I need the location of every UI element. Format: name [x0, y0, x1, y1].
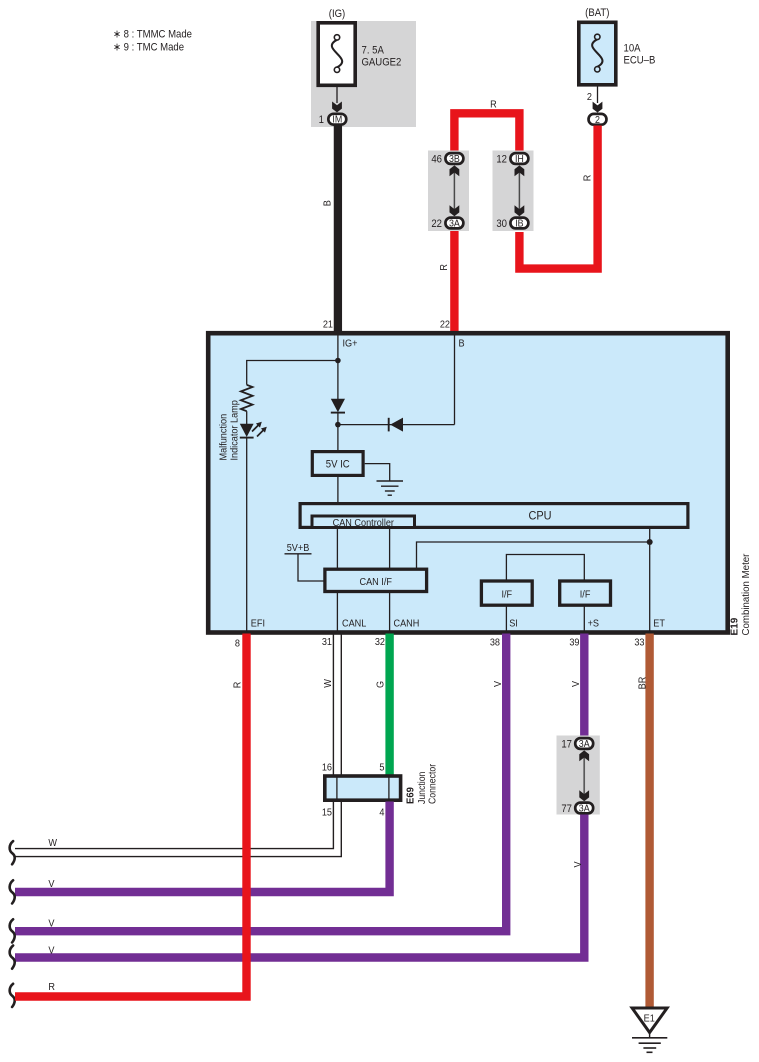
svg-text:EFI: EFI	[251, 618, 265, 630]
svg-text:ECU–B: ECU–B	[624, 55, 656, 67]
CPU box	[300, 504, 688, 528]
svg-text:V: V	[572, 861, 584, 867]
note text TMMC/TMC	[113, 29, 192, 54]
fuse ECU-B 10A	[579, 22, 656, 85]
svg-text:38: 38	[490, 637, 501, 649]
svg-text:G: G	[375, 681, 387, 688]
diode D1 (series)	[331, 399, 345, 413]
svg-text:V: V	[48, 918, 54, 930]
wire R: 3A down to pin 22	[450, 230, 458, 334]
svg-text:I/F: I/F	[501, 589, 512, 601]
svg-text:39: 39	[569, 637, 579, 649]
ground E1	[632, 1008, 667, 1052]
svg-text:CANH: CANH	[394, 618, 420, 630]
wire R from EFI pin to left break	[15, 634, 247, 997]
wire I/F to +S pin	[583, 607, 585, 633]
svg-text:V: V	[48, 945, 54, 957]
svg-text:5V IC: 5V IC	[326, 459, 350, 471]
wire B (black) IM to pin 21	[334, 126, 342, 334]
diode D2 (to B line, pointing left)	[389, 418, 403, 432]
svg-text:SI: SI	[509, 618, 518, 630]
wire V from SI pin to left break	[15, 634, 506, 932]
wire G (CANH) to junction connector	[385, 634, 393, 776]
wire CAN controller to CAN I/F (CANL)	[336, 529, 338, 569]
double arrow between 3B and 3A	[453, 171, 455, 211]
svg-text:E1: E1	[644, 1013, 655, 1025]
svg-text:IH: IH	[515, 153, 524, 165]
wire R: IH up, left, down to 3B	[454, 113, 519, 152]
svg-text:R: R	[232, 682, 244, 689]
svg-text:∗ 9 : TMC Made: ∗ 9 : TMC Made	[113, 42, 184, 54]
svg-text:ET: ET	[653, 618, 665, 630]
svg-text:(BAT): (BAT)	[585, 7, 609, 19]
gray panel behind fuse GAUGE2	[311, 21, 416, 127]
5V IC box	[312, 452, 363, 476]
svg-text:33: 33	[634, 637, 645, 649]
svg-text:3B: 3B	[449, 153, 460, 165]
svg-text:2: 2	[587, 91, 592, 103]
svg-text:15: 15	[322, 807, 333, 819]
connector oval IB pin 30	[510, 218, 528, 229]
svg-text:32: 32	[375, 636, 385, 648]
svg-text:GAUGE2: GAUGE2	[362, 57, 402, 69]
node IG+ junction	[335, 358, 341, 364]
node ET junction	[647, 539, 653, 545]
CAN Controller box	[312, 516, 415, 528]
connector oval IH pin 12	[510, 153, 528, 164]
wire 5V+B bracket	[285, 553, 312, 555]
connector oval 2	[589, 114, 607, 126]
svg-text:22: 22	[431, 218, 442, 230]
svg-text:17: 17	[561, 739, 572, 751]
svg-text:3A: 3A	[449, 218, 460, 230]
svg-text:B: B	[322, 200, 334, 206]
combination meter box E19	[208, 333, 728, 632]
svg-text:Combination Meter: Combination Meter	[741, 553, 752, 636]
svg-text:BR: BR	[637, 677, 649, 690]
wire CAN I/F to CANH pin	[389, 593, 391, 633]
fuse GAUGE2 7.5A	[318, 23, 401, 86]
svg-text:IM: IM	[332, 114, 342, 126]
svg-text:Malfunction: Malfunction	[218, 414, 230, 461]
svg-text:3A: 3A	[579, 803, 590, 815]
ground (internal)	[377, 481, 404, 495]
wire CAN I/F to ET net	[417, 542, 650, 568]
I/F box (SI)	[481, 581, 532, 605]
CAN I/F box	[325, 569, 427, 591]
svg-text:77: 77	[561, 803, 572, 815]
connector pin 1 IM	[319, 114, 347, 126]
svg-text:46: 46	[431, 154, 442, 166]
wire CPU to ET pin	[649, 529, 651, 633]
pin numbers below box	[235, 636, 645, 649]
wire W (double line) CANL to left break	[15, 634, 341, 857]
svg-text:W: W	[322, 679, 334, 688]
resistor (lamp)	[241, 385, 253, 411]
junction connector E69	[325, 776, 401, 800]
wire V from 3A to left break	[15, 815, 584, 958]
wire 5V IC to ground	[365, 464, 390, 481]
connector oval 3A pin 22	[445, 218, 463, 229]
connector oval 3A pin 77	[575, 803, 593, 814]
svg-text:4: 4	[379, 807, 385, 819]
svg-text:+S: +S	[588, 618, 600, 630]
svg-text:R: R	[438, 264, 450, 271]
svg-text:2: 2	[595, 114, 600, 126]
wire fuse to oval 2	[597, 87, 599, 104]
svg-text:5: 5	[379, 762, 385, 774]
INTERIOR	[241, 335, 650, 632]
LED malfunction indicator lamp	[240, 422, 267, 438]
I/F box (+S)	[560, 581, 611, 605]
svg-text:CANL: CANL	[342, 618, 367, 630]
svg-text:V: V	[492, 681, 504, 687]
svg-text:10A: 10A	[624, 43, 641, 55]
svg-text:1: 1	[319, 114, 325, 126]
svg-text:Connector: Connector	[427, 764, 438, 804]
connector pair 3A/3A gray panel	[557, 736, 600, 815]
svg-text:E19: E19	[729, 617, 740, 635]
svg-text:V: V	[48, 878, 54, 890]
break symbol V row2	[10, 880, 15, 903]
svg-text:7. 5A: 7. 5A	[362, 45, 384, 57]
break symbol V row4	[10, 946, 15, 969]
wire IG+ net vertical	[337, 335, 339, 400]
connector oval 3A pin 17	[575, 738, 593, 749]
break symbol V row3	[10, 919, 15, 942]
connector pair IH/IB gray panel	[493, 151, 534, 232]
svg-text:CAN Controller: CAN Controller	[333, 517, 395, 529]
svg-text:E69: E69	[405, 787, 416, 804]
wire junction to B-line diode	[338, 424, 455, 426]
wire B net from pin 22	[454, 335, 456, 425]
svg-text:IB: IB	[515, 218, 523, 230]
svg-text:I/F: I/F	[580, 589, 591, 601]
svg-text:R: R	[490, 99, 497, 111]
wire R: oval2 down, left, up to IB	[519, 126, 597, 269]
wire diode to 5V IC	[337, 412, 339, 451]
wire I/F bridge	[506, 555, 584, 580]
svg-text:CAN I/F: CAN I/F	[359, 576, 391, 588]
pin labels inside box	[251, 338, 665, 630]
svg-text:5V+B: 5V+B	[287, 542, 310, 554]
double arrow between IH and IB	[518, 171, 520, 211]
svg-text:3A: 3A	[579, 738, 590, 750]
svg-text:W: W	[48, 837, 57, 849]
svg-text:12: 12	[496, 154, 507, 166]
wire V from +S pin to connector 3A	[580, 634, 588, 739]
arrow into oval 2	[593, 102, 603, 113]
wire CAN controller to CAN I/F (CANH)	[389, 529, 391, 569]
double arrow between 3A and 3A	[583, 756, 585, 796]
svg-text:21: 21	[323, 319, 333, 331]
wire BR from ET pin to ground	[645, 634, 653, 1009]
wire fuse to IM	[336, 87, 338, 103]
svg-text:16: 16	[322, 762, 333, 774]
wire resistor to LED	[246, 411, 248, 424]
wire 5V IC to CPU	[337, 477, 339, 503]
svg-text:(IG): (IG)	[329, 8, 345, 20]
wire I/F to SI pin	[505, 607, 507, 633]
svg-text:30: 30	[496, 218, 507, 230]
svg-text:IG+: IG+	[343, 338, 358, 350]
connector pair 3B/3A gray panel	[428, 151, 469, 232]
svg-text:Junction: Junction	[416, 772, 427, 804]
wire to lamp branch	[247, 361, 338, 385]
svg-text:8: 8	[235, 638, 241, 650]
arrow into IM	[332, 102, 342, 113]
E69 pin numbers	[322, 762, 385, 819]
break symbol R	[10, 984, 15, 1007]
svg-text:CPU: CPU	[528, 510, 551, 522]
connector oval 3B pin 46	[445, 153, 463, 164]
svg-text:R: R	[582, 175, 594, 182]
wire LED to EFI pin	[246, 437, 248, 632]
wire CAN I/F to CANL pin	[336, 593, 338, 633]
svg-text:V: V	[570, 681, 582, 687]
svg-text:B: B	[459, 338, 465, 350]
svg-text:R: R	[48, 981, 55, 993]
break symbol W	[10, 841, 15, 864]
node diode junction	[335, 422, 341, 428]
svg-text:Indicator Lamp: Indicator Lamp	[229, 400, 241, 461]
svg-text:∗ 8 : TMMC Made: ∗ 8 : TMMC Made	[113, 29, 192, 41]
svg-text:31: 31	[322, 636, 332, 648]
wire V from E69 pin4 to left break	[15, 802, 390, 893]
svg-text:22: 22	[440, 319, 450, 331]
